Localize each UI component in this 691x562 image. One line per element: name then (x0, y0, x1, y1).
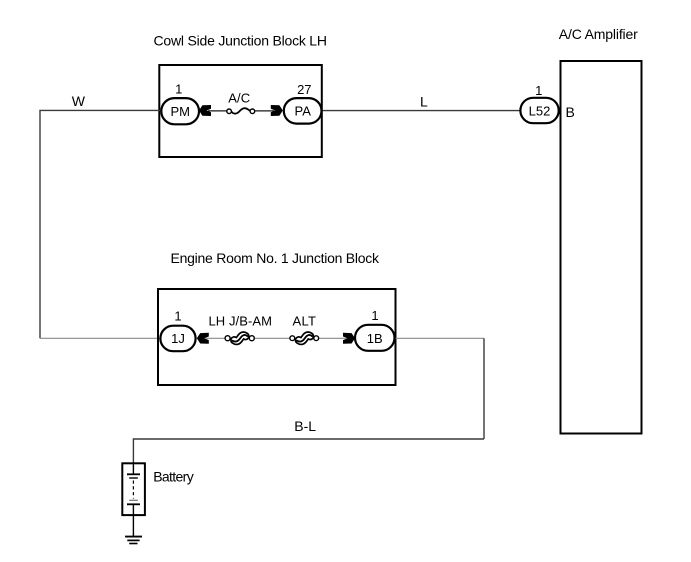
fusible link LH J/B-AM left terminal (225, 336, 230, 341)
svg-text:Cowl Side Junction Block LH: Cowl Side Junction Block LH (154, 33, 328, 49)
wire stub link to 1B arrow (319, 337, 349, 339)
wire stub PM arrow to fuse (208, 110, 228, 112)
svg-text:B-L: B-L (294, 418, 316, 434)
svg-text:L: L (420, 94, 428, 110)
arrow into 1J (197, 333, 209, 344)
arrow into 1B (343, 333, 355, 344)
connector PM (161, 98, 199, 124)
fusible link ALT right terminal (314, 336, 319, 341)
svg-text:Engine Room No. 1 Junction Blo: Engine Room No. 1 Junction Block (171, 250, 381, 266)
wire between fusible links (254, 337, 290, 339)
svg-text:B: B (566, 104, 575, 120)
wire stub fuse to PA arrow (254, 110, 274, 112)
arrow into PM (199, 105, 211, 116)
svg-text:W: W (72, 93, 86, 109)
connector PA (284, 98, 322, 124)
fuse A/C wavy element (231, 108, 250, 113)
connector 1B (355, 325, 395, 351)
fusible link LH J/B-AM band (232, 335, 247, 342)
battery box (122, 463, 145, 515)
fusible link ALT band (297, 335, 312, 342)
svg-text:LH J/B-AM: LH J/B-AM (209, 313, 273, 328)
wire stub 1J arrow to link (206, 337, 226, 339)
ground (125, 537, 142, 544)
box Engine Room No. 1 Junction Block (158, 289, 396, 385)
svg-text:1: 1 (535, 83, 542, 98)
battery internal cells (127, 463, 140, 515)
wire B-L vertical drop (483, 338, 485, 439)
wire L (321, 110, 520, 112)
svg-text:1: 1 (175, 82, 182, 97)
wire battery to ground (132, 515, 134, 537)
svg-text:PA: PA (295, 103, 312, 118)
svg-text:ALT: ALT (293, 313, 317, 328)
svg-text:A/C Amplifier: A/C Amplifier (559, 26, 638, 42)
fusible link LH J/B-AM right terminal (249, 336, 254, 341)
fuse A/C right terminal (250, 109, 255, 114)
wire W bottom run to 1J (40, 337, 161, 339)
wire B-L horizontal from 1B (395, 337, 484, 339)
wire B-L bottom run to battery (133, 439, 484, 464)
svg-text:A/C: A/C (228, 90, 250, 105)
svg-text:Battery: Battery (153, 469, 194, 485)
arrow into PA (271, 105, 283, 116)
connector L52 (520, 98, 558, 123)
svg-text:1B: 1B (367, 331, 383, 346)
svg-text:27: 27 (297, 82, 311, 97)
svg-text:L52: L52 (529, 103, 551, 118)
fuse A/C left terminal (227, 109, 232, 114)
box A/C Amplifier (561, 61, 642, 434)
svg-text:1J: 1J (171, 331, 185, 346)
svg-text:1: 1 (371, 308, 378, 323)
wire W horizontal and vertical (40, 110, 161, 338)
svg-text:PM: PM (170, 104, 190, 119)
box Cowl Side Junction Block LH (159, 65, 321, 157)
fusible link ALT left terminal (290, 336, 295, 341)
svg-text:1: 1 (174, 309, 181, 324)
connector 1J (160, 326, 195, 352)
